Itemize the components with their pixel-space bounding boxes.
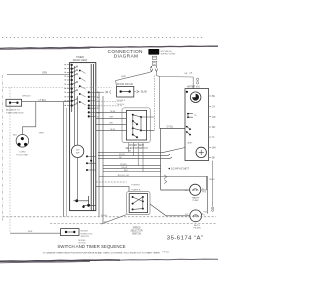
svg-text:TO CHANGE TIMER KNOB POSITION: TO CHANGE TIMER KNOB POSITION PUSH KNOB …: [43, 251, 160, 254]
svg-text:RD: RD: [97, 108, 101, 110]
svg-text:LT BLU: LT BLU: [39, 100, 47, 102]
timer contact arms: [73, 67, 77, 106]
chassis dash line lower: [50, 222, 216, 224]
svg-text:ADVANCE TO: ADVANCE TO: [6, 109, 20, 112]
wire stack W to motor: [98, 148, 185, 153]
svg-text:SWITCH AND TIMER SEQUENCE: SWITCH AND TIMER SEQUENCE: [57, 244, 125, 249]
svg-text:TE-W: TE-W: [110, 129, 117, 131]
svg-text:OR: OR: [212, 117, 216, 119]
filter pump right leads: [202, 213, 204, 215]
svg-text:WATER: WATER: [192, 196, 200, 199]
reset interlock box: [61, 229, 80, 236]
wire stack RD-W: [98, 157, 172, 159]
supply cord plug: [148, 49, 159, 55]
reset interlock wire: [10, 232, 61, 234]
external vertical wires right of timer: [98, 92, 100, 217]
frame dotted horizontal: [3, 86, 113, 88]
water pump motor: [190, 184, 201, 195]
wire LT BLU: [22, 101, 70, 103]
wire stack BR-YEL-OR: [99, 177, 208, 214]
motor assembly box: [185, 89, 209, 161]
timer right terminal ticks: [89, 92, 96, 116]
svg-text:MOL: MOL: [28, 231, 34, 233]
wire GRN top: [7, 74, 70, 76]
svg-text:RE-SET: RE-SET: [81, 231, 89, 233]
wire stack RD-W 2: [103, 168, 161, 170]
timer motor feed wires: [74, 66, 76, 146]
svg-text:AUTO: AUTO: [194, 224, 200, 227]
svg-text:GRN: GRN: [39, 132, 44, 134]
svg-text:BR-YEL-OR: BR-YEL-OR: [118, 175, 130, 177]
wire stack PURPL: [103, 165, 161, 167]
wire speed selector to chassis: [101, 215, 127, 225]
svg-text:WATER TEMP: WATER TEMP: [129, 144, 144, 147]
cord strain relief symbols: [152, 56, 156, 59]
timer cam follower diagonals: [81, 71, 86, 106]
svg-text:DIAGRAM: DIAGRAM: [114, 54, 139, 60]
timer terminal tiny labels left: [64, 64, 66, 106]
svg-text:PURPL: PURPL: [120, 164, 128, 166]
svg-text:TD: TD: [194, 115, 197, 117]
motor run circle: [196, 147, 206, 157]
svg-text:SUPPLY CORD: SUPPLY CORD: [161, 54, 176, 56]
svg-text:(REAR VIEW): (REAR VIEW): [73, 59, 88, 62]
water temp selector outer: [122, 108, 150, 143]
chassis dash line upper: [3, 216, 217, 218]
svg-text:YE-BLK: YE-BLK: [117, 104, 125, 106]
node motor box top-left: [186, 91, 188, 93]
svg-text:DOOR SW LID: DOOR SW LID: [117, 83, 133, 86]
water temp selector inner: [126, 110, 146, 140]
svg-text:PURPLE: PURPLE: [132, 189, 141, 191]
svg-text:AGIT: AGIT: [188, 142, 194, 145]
wire timer to selector 3: [96, 123, 127, 125]
timer bottom contacts: [75, 199, 78, 202]
timer left terminal bus: [71, 64, 73, 112]
svg-text:START AND RUN: START AND RUN: [6, 111, 24, 114]
right margin terminal ticks and labels: [209, 96, 212, 157]
svg-text:WATER VLV: WATER VLV: [187, 85, 200, 88]
timer middle contacts: [79, 70, 81, 103]
wire cord inner drop: [153, 76, 155, 131]
svg-text:TIMER: TIMER: [76, 56, 84, 59]
external vertical wire 2 left of timer: [66, 108, 68, 217]
wire drop to water pump: [161, 128, 190, 190]
wire cord right conductor: [155, 66, 158, 72]
svg-text:BU: BU: [97, 97, 100, 99]
start winding circle: [190, 92, 201, 103]
svg-text:PU-W: PU-W: [119, 154, 125, 156]
advance terminal block: [6, 99, 22, 106]
wire GY-BL to motor: [160, 127, 185, 129]
svg-text:LID: LID: [76, 150, 80, 152]
wire stack short: [96, 181, 127, 183]
svg-text:BU: BU: [212, 96, 216, 98]
chevron crossings: [164, 175, 166, 184]
svg-text:PURPLE: PURPLE: [132, 185, 141, 187]
svg-text:BR: BR: [110, 123, 113, 125]
wire from margin with connectors: [212, 161, 214, 207]
wire stack BLK: [103, 171, 161, 173]
wire speed selector to filter pump: [150, 204, 190, 216]
timer box: [70, 63, 96, 211]
timer terminal code labels right: [97, 92, 101, 118]
svg-text:P-: P-: [202, 188, 204, 190]
label 1/2 HP AC MOT: [169, 168, 171, 170]
wire timer to selector TE-BL: [96, 112, 127, 114]
svg-text:GY: GY: [212, 107, 216, 109]
svg-text:W: W: [129, 151, 131, 153]
selector contacts: [132, 114, 134, 116]
door switch left lead arrow: [96, 91, 111, 94]
svg-text:RD-W: RD-W: [122, 167, 128, 169]
svg-text:RD: RD: [212, 127, 216, 129]
left frame dash-dot vertical: [2, 75, 4, 222]
filter pump motor: [190, 210, 202, 222]
wire timer to selector 2: [96, 117, 127, 119]
inner frame dotted vertical: [9, 87, 11, 233]
svg-text:BLK: BLK: [124, 170, 129, 172]
ground plug circle: [16, 135, 29, 148]
lid switch circle: [71, 145, 83, 157]
svg-text:PR-645: PR-645: [163, 252, 171, 254]
svg-text:WH: WH: [212, 148, 216, 150]
wire cord left conductor: [150, 66, 153, 72]
thermal protector TD: [187, 113, 189, 115]
wire timer to selector 4: [96, 130, 127, 132]
wire cord right drop: [156, 72, 159, 129]
fold dotted line top: [2, 37, 204, 39]
speed selector inner: [129, 194, 147, 213]
svg-text:BK: BK: [212, 158, 216, 160]
paper background: [0, 0, 218, 285]
svg-text:WH-BLK: WH-BLK: [22, 96, 31, 98]
svg-text:SWITCH: SWITCH: [81, 236, 90, 238]
svg-text:PLUG GRD: PLUG GRD: [17, 155, 29, 157]
svg-text:INTERLOCK: INTERLOCK: [81, 233, 94, 235]
door switch contacts: [120, 90, 122, 92]
svg-text:GY-BL: GY-BL: [167, 127, 174, 129]
svg-text:1/2 HP AC MOT: 1/2 HP AC MOT: [171, 168, 189, 171]
wire stack PU-W: [98, 154, 170, 156]
svg-text:BLNK: BLNK: [141, 92, 147, 94]
speed selector outer: [127, 192, 150, 215]
timer right terminals: [88, 91, 90, 117]
wires timer to selector: [96, 101, 122, 103]
motor contacts: [186, 126, 188, 128]
timer left terminals: [71, 64, 73, 107]
svg-text:WT 12B (N): WT 12B (N): [161, 51, 172, 53]
svg-text:GRN: GRN: [42, 73, 47, 75]
svg-text:SPEED: SPEED: [133, 228, 141, 230]
speed selector contacts: [132, 196, 134, 198]
page bottom torn edge: [0, 260, 120, 261]
door switch right lead arrow: [134, 91, 139, 93]
svg-text:WH: WH: [110, 117, 114, 119]
svg-text:SELECTOR: SELECTOR: [130, 231, 143, 233]
wire stack PURPLE to speed box: [96, 186, 129, 191]
svg-text:SWITCH: SWITCH: [132, 234, 141, 236]
svg-text:WH-BLK: WH-BLK: [117, 100, 126, 102]
selector wiring: [133, 115, 155, 137]
svg-text:CA: CA: [189, 71, 193, 74]
svg-text:WH-B: WH-B: [101, 215, 107, 217]
lid switch lower lead: [77, 158, 79, 201]
water pump right leads: [201, 177, 207, 191]
svg-text:BLK: BLK: [13, 134, 18, 136]
selector drops to wire stack: [129, 143, 143, 172]
svg-text:TE-BL: TE-BL: [110, 111, 117, 113]
wire black diagonal from cord to door switch: [116, 72, 152, 87]
wire to ground plug: [22, 102, 35, 135]
wire to water valve: [160, 77, 194, 89]
page top torn edge: [0, 46, 218, 48]
external vertical wire left of timer: [63, 102, 65, 217]
timer mid-right nodes: [86, 155, 88, 157]
svg-text:35-6174 “A”: 35-6174 “A”: [167, 235, 204, 241]
valve inline symbols: [196, 78, 198, 80]
svg-text:PUMP: PUMP: [193, 200, 200, 202]
timer inner bus lines: [90, 64, 92, 211]
svg-text:RD: RD: [119, 157, 123, 159]
timer left terminal ticks: [67, 65, 72, 106]
svg-text:CA: CA: [184, 72, 188, 75]
door switch box: [117, 86, 134, 97]
svg-text:CORD: CORD: [19, 152, 26, 154]
svg-text:FILTER: FILTER: [193, 227, 201, 229]
